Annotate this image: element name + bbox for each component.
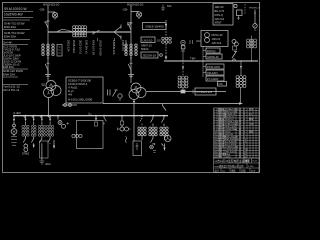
svg-text:EN# 20A: EN# 20A (3, 72, 15, 76)
transformer T2 (three windings) (131, 83, 141, 93)
link ticks left of T1 (41, 84, 45, 86)
svg-text:FJ6: FJ6 (219, 83, 224, 86)
disconnector feeder 1 upper (45, 21, 49, 28)
vertical text columns under tie line (67, 40, 129, 56)
svg-text:JMK-30: JMK-30 (215, 5, 224, 9)
disconnector feeder 1 lower (47, 58, 49, 61)
svg-text:-CB-: -CB- (39, 8, 45, 12)
capacitor CT cluster (72, 134, 82, 137)
svg-text:GZDW-20: GZDW-20 (207, 55, 219, 59)
capacitor panel outline (77, 121, 104, 149)
svg-text:ZYJ-220V: ZYJ-220V (207, 77, 219, 81)
svg-text:4%: 4% (68, 93, 73, 97)
LV feeder F5 (lighting transformer) (57, 116, 59, 120)
disconnector feeder 2 lower (130, 58, 132, 61)
dashed drop to LV aux bus (165, 44, 167, 58)
svg-text:DTS634 3x5: DTS634 3x5 (197, 90, 213, 94)
label box GN19 (143, 23, 167, 30)
table text blobs (214, 107, 253, 159)
label block LB4 (multi-line cable spec) (3, 41, 12, 45)
cable box (133, 141, 142, 156)
10kV tie line (y=32) (48, 31, 131, 33)
metering CT cluster (178, 76, 188, 88)
svg-text:E-01: E-01 (253, 161, 258, 163)
LV feeder F2 (32, 116, 34, 119)
PEN / neutral line (y=103.5) (103, 103, 239, 105)
svg-text:-CB-: -CB- (122, 8, 128, 12)
PE mark near top (161, 5, 165, 11)
svg-text:EN# 20A: EN# 20A (4, 25, 16, 29)
feeder below aux bus (240, 61, 242, 76)
svg-text:HXGN15-10: HXGN15-10 (127, 3, 144, 7)
svg-text:RN2-10 0.5A: RN2-10 0.5A (92, 40, 96, 55)
meter circle F8 (165, 135, 171, 141)
label text XRNT (141, 44, 152, 51)
wire: incoming feeder 2 vertical (130, 5, 132, 78)
svg-text:XM-220V: XM-220V (207, 71, 218, 75)
switch near aux bus (232, 52, 237, 59)
svg-text:S9-M-100/10-W: S9-M-100/10-W (4, 7, 27, 11)
station transformer (181, 40, 185, 44)
bus junction dots (13, 115, 165, 117)
svg-text:JDZX9-10: JDZX9-10 (143, 54, 157, 58)
lamp circle (118, 94, 122, 98)
svg-text:N10: N10 (167, 5, 172, 8)
center spec box (T2 specification) (66, 77, 103, 103)
arrow at end of PEN line (239, 102, 243, 104)
section riser x134 below bus (133, 116, 135, 141)
withdrawable unit box (40, 141, 49, 158)
feeder x122 with lamps (121, 116, 123, 121)
svg-text:TMY: TMY (190, 57, 196, 61)
PE tick (44, 21, 48, 23)
wire cluster down to PEN line (240, 88, 242, 104)
CT cluster F6 (138, 127, 146, 136)
LV feeder F1 (24, 116, 26, 119)
svg-text:-40x4: -40x4 (45, 163, 52, 166)
svg-text:EN# 20A: EN# 20A (4, 35, 16, 39)
wire into T2 (128, 70, 134, 83)
aux transformer + fuse group (232, 40, 236, 44)
top-right spec box (213, 4, 233, 26)
svg-text:10±5%/0.4kV: 10±5%/0.4kV (4, 13, 24, 17)
metering PT cluster on tie line (73, 26, 87, 37)
link box on line (181, 90, 185, 93)
small mark on tie line (128, 23, 131, 26)
CT cluster F2 (31, 125, 36, 136)
LV feeder F0 (PT) (13, 116, 15, 119)
LV feeder F7 (151, 116, 154, 126)
earthing transformer box (201, 31, 228, 47)
wire T1 to LV bus (48, 98, 50, 116)
neutral link symbol under box (62, 104, 77, 106)
station fuse box (237, 10, 243, 16)
station PT dashed drop (165, 20, 167, 36)
misc marks right of station transformer (190, 40, 193, 44)
breaker (circle-X) feeder 1 (52, 13, 57, 18)
T2 metering line (y=91.5) (147, 91, 227, 93)
CT stack columns feeder 1 (42, 44, 55, 57)
svg-text:Dzn: Dzn (197, 40, 202, 43)
svg-text:ZN28-12x3: ZN28-12x3 (72, 40, 76, 53)
svg-text:BH-0.75: BH-0.75 (215, 9, 225, 13)
svg-text:JDZJ-10 0.5: JDZJ-10 0.5 (79, 40, 83, 55)
svg-text:10/0.22: 10/0.22 (212, 37, 221, 41)
equipment table (214, 108, 260, 158)
PT box right of feeder 1 (57, 45, 62, 57)
wire T2 down to LV bus (133, 104, 135, 116)
station meter circle (234, 4, 237, 7)
svg-text:JN15-12A: JN15-12A (67, 40, 71, 52)
svg-text:HXGN15-10: HXGN15-10 (43, 3, 60, 7)
ground symbol (39, 161, 44, 164)
aux PT cluster (above bus) (251, 36, 253, 62)
LV feeder F4 (48, 116, 50, 119)
wire: branch to breaker 2 (131, 11, 139, 13)
CT cluster F3 (38, 125, 45, 136)
label block LB3 (4, 31, 25, 39)
small label box top-right (218, 82, 227, 87)
label box 3 (141, 52, 158, 58)
svg-text:GN19-10 630: GN19-10 630 (99, 40, 103, 56)
label block LB5 (3, 69, 23, 77)
LV feeder F6 (140, 116, 143, 126)
label block LB6 (T1 winding spec) (3, 85, 20, 93)
dashed tap line (244, 4, 246, 14)
breaker (circle-X) feeder 2 (136, 12, 141, 17)
svg-text:220 2A2: 220 2A2 (215, 17, 225, 21)
PT winding cluster (162, 37, 172, 43)
PT branch right of spec box (108, 90, 111, 96)
svg-text:1:100: 1:100 (248, 166, 254, 168)
wire T2 to neutral line with arrow (133, 100, 135, 102)
svg-text:DT862: DT862 (22, 153, 30, 156)
svg-text:XRNT: XRNT (215, 21, 222, 25)
svg-text:L50x5: L50x5 (225, 157, 231, 159)
wire: branch to earthing breaker (48, 12, 55, 20)
wire: incoming feeder 1 vertical (47, 5, 49, 76)
CT cluster F7 (149, 127, 157, 136)
disconnector feeder 2 upper (128, 23, 132, 30)
wire into T1 (45, 70, 51, 81)
svg-text:HY5WS-17: HY5WS-17 (249, 8, 261, 10)
svg-text:LN2-10: LN2-10 (143, 39, 153, 43)
border frame (3, 3, 260, 173)
LV feeder F3 (40, 116, 42, 119)
label block LB1 (transformer spec, top-left) (4, 7, 27, 17)
curl symbol (125, 137, 126, 143)
label box LN (141, 37, 155, 43)
svg-text:Uk=4.5% x2: Uk=4.5% x2 (3, 88, 20, 92)
svg-text:0.4kV: 0.4kV (14, 111, 22, 115)
svg-text:DKSC-30: DKSC-30 (212, 33, 224, 37)
LV auxiliary bus TMY (y=61) (164, 60, 258, 62)
svg-text:DXN-Q: DXN-Q (215, 13, 223, 17)
svg-text:PZ30-220V: PZ30-220V (207, 65, 220, 69)
outgoing cable arrow (53, 140, 55, 146)
meter label box (195, 88, 216, 95)
neutral marks on bus (89, 113, 91, 116)
CT cluster below aux bus (236, 76, 246, 88)
drop switch on PEN line (163, 104, 167, 111)
label block LB2 (3, 19, 30, 21)
CT cluster F4 (46, 125, 53, 136)
DC panel label boxes (203, 47, 206, 78)
svg-text:220 2A2: 220 2A2 (212, 41, 222, 45)
drop into capacitor panel (95, 116, 97, 118)
switch on tie line (93, 30, 100, 35)
link curve on tie line (57, 30, 72, 32)
svg-text:50kVA: 50kVA (141, 47, 149, 51)
LV feeder F8 (162, 116, 165, 126)
svg-text:DXN-Q: DXN-Q (207, 49, 215, 53)
CT cluster F8 (160, 127, 168, 136)
svg-text:N-100L/100L/100E: N-100L/100L/100E (68, 98, 92, 102)
CT stack columns feeder 2 (125, 44, 138, 57)
fork disconnect on tie line (114, 25, 121, 40)
title block (214, 158, 260, 173)
svg-text:LZZBJ9-10A: LZZBJ9-10A (112, 40, 116, 55)
dashed drop from aux bus to metering CT (182, 63, 184, 76)
CT cluster F1 (22, 125, 29, 136)
svg-text:10/0.1kV x2: 10/0.1kV x2 (85, 40, 89, 54)
svg-text:0.5: 0.5 (157, 39, 161, 43)
transformer T1 (three windings) (46, 81, 56, 91)
voltmeter circle (11, 129, 17, 135)
svg-text:GN19-10/400: GN19-10/400 (146, 25, 164, 29)
